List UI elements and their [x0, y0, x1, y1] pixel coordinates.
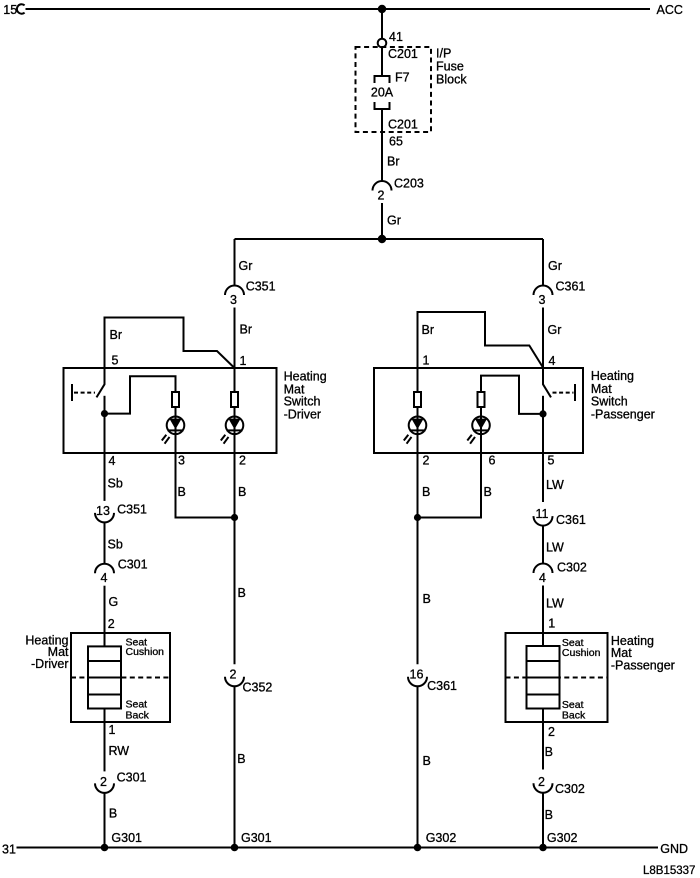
svg-text:20A: 20A	[371, 86, 394, 100]
svg-text:-Driver: -Driver	[284, 408, 322, 422]
wire bus to C361 right	[542, 239, 544, 286]
svg-text:2: 2	[548, 725, 555, 739]
mat divider dashed driver	[71, 677, 170, 679]
svg-text:B: B	[178, 485, 186, 499]
svg-text:2: 2	[423, 454, 430, 468]
connector C301 pin 2	[95, 783, 114, 793]
svg-text:-Driver: -Driver	[31, 657, 69, 671]
svg-text:Back: Back	[126, 709, 150, 721]
svg-text:Br: Br	[110, 328, 123, 342]
LED1 passenger	[409, 417, 427, 435]
Heating Mat Switch Driver box	[64, 368, 277, 453]
svg-text:13: 13	[96, 504, 110, 518]
svg-text:G302: G302	[547, 831, 578, 845]
junction pin6/pin2 passenger	[414, 514, 421, 521]
svg-text:B: B	[237, 752, 245, 766]
LED1 arrows driver	[162, 435, 170, 444]
svg-text:B: B	[423, 754, 431, 768]
switch lever passenger	[543, 368, 551, 397]
wire mat passenger to C302-2	[542, 709, 544, 770]
wire switch to LED2 branch passenger	[481, 376, 543, 414]
Heating Mat Driver box	[71, 633, 170, 722]
svg-text:B: B	[109, 807, 117, 821]
svg-text:1: 1	[240, 354, 247, 368]
resistor LED1 passenger	[414, 392, 421, 407]
svg-text:31: 31	[2, 843, 16, 857]
switch contact bar driver	[71, 384, 73, 401]
LED2 driver	[226, 417, 244, 435]
svg-text:4: 4	[539, 571, 546, 585]
svg-text:Gr: Gr	[387, 214, 401, 228]
svg-text:LW: LW	[546, 541, 564, 555]
wire bus to C351 left	[234, 239, 236, 286]
connector C351 pin 3	[225, 286, 244, 296]
LED1 arrows passenger	[404, 435, 412, 444]
svg-text:C361: C361	[427, 679, 457, 693]
svg-text:3: 3	[230, 293, 237, 307]
wire resistor to LED1 passenger	[417, 407, 419, 453]
wire C301-4 to heating mat driver	[104, 586, 106, 647]
svg-text:L8B15337: L8B15337	[643, 865, 695, 877]
wire fuse to C203, pin 65	[381, 109, 383, 181]
svg-text:B: B	[484, 485, 492, 499]
svg-text:B: B	[545, 745, 553, 759]
svg-text:3: 3	[178, 454, 185, 468]
pin 41 terminal	[378, 39, 387, 48]
LED1 driver	[167, 417, 185, 435]
svg-text:41: 41	[389, 30, 403, 44]
connector C301 pin 4	[95, 564, 114, 574]
svg-text:11: 11	[536, 507, 549, 521]
svg-text:LW: LW	[546, 478, 564, 492]
svg-text:Cushion: Cushion	[126, 646, 165, 658]
wire C361-16 to G302	[417, 686, 419, 847]
fuse F7 20A	[375, 76, 390, 109]
connector C361 pin 11	[534, 516, 553, 526]
wire C203 to bus	[381, 203, 383, 239]
connector C361 pin 16	[408, 677, 427, 687]
wire C302-4 to heating mat passenger	[542, 586, 544, 647]
svg-text:Heating: Heating	[591, 369, 634, 383]
svg-text:B: B	[238, 485, 246, 499]
svg-text:4: 4	[109, 454, 116, 468]
svg-text:Gr: Gr	[239, 259, 253, 273]
wire pin1 to resistor LED1 passenger	[417, 368, 419, 392]
junction pin3/pin2 driver	[231, 514, 238, 521]
svg-text:G301: G301	[241, 831, 272, 845]
svg-text:Gr: Gr	[548, 323, 562, 337]
wire pin2 passenger down	[417, 453, 419, 664]
switch output stub driver	[104, 396, 106, 414]
svg-text:-Passenger: -Passenger	[611, 658, 675, 672]
svg-text:4: 4	[101, 571, 108, 585]
svg-text:Br: Br	[240, 323, 253, 337]
wire pin4 below junction driver	[104, 414, 106, 453]
svg-text:C302: C302	[555, 782, 585, 796]
LED2 arrows driver	[221, 435, 229, 444]
connector C352 pin 2	[225, 677, 244, 687]
svg-text:5: 5	[112, 354, 119, 368]
svg-text:2: 2	[108, 617, 115, 631]
svg-text:Heating: Heating	[284, 370, 327, 384]
svg-text:1: 1	[548, 617, 555, 631]
svg-text:Sb: Sb	[108, 538, 123, 552]
svg-text:Cushion: Cushion	[562, 647, 601, 659]
svg-text:F7: F7	[395, 71, 410, 85]
svg-text:C361: C361	[556, 513, 586, 527]
junction bus	[378, 235, 386, 243]
svg-text:GND: GND	[660, 842, 688, 856]
svg-text:B: B	[238, 586, 246, 600]
junction top bus to feed	[378, 5, 386, 13]
svg-text:RW: RW	[109, 744, 130, 758]
svg-text:2: 2	[230, 668, 237, 682]
svg-text:C351: C351	[117, 503, 147, 517]
wire pin1 to resistor LED2 driver	[234, 368, 236, 392]
connector C302 pin 2	[534, 783, 553, 793]
LED2 passenger	[472, 417, 490, 435]
svg-text:2: 2	[538, 775, 545, 789]
svg-text:C352: C352	[243, 681, 273, 695]
svg-text:5: 5	[548, 454, 555, 468]
I/P fuse block dashed box	[356, 47, 432, 132]
wire ACC top bus	[26, 8, 651, 10]
svg-text:Back: Back	[562, 709, 586, 721]
svg-text:6: 6	[489, 454, 496, 468]
connector C302 pin 4	[534, 564, 553, 574]
wire resistor to LED2 passenger	[480, 407, 482, 453]
svg-text:2: 2	[239, 454, 246, 468]
wire pin6 passenger down	[418, 453, 482, 518]
Heating Mat Switch Passenger box	[374, 368, 583, 453]
wire C361 to switch pin 4	[542, 308, 544, 369]
wire pin5 below junction passenger	[542, 414, 544, 453]
svg-text:C351: C351	[246, 280, 276, 294]
svg-text:-Passenger: -Passenger	[591, 408, 655, 422]
wire C351 to switch pin 1	[234, 308, 236, 369]
ground bus 31	[17, 847, 659, 849]
switch output stub passenger	[542, 396, 544, 414]
svg-text:15: 15	[3, 3, 17, 17]
resistor LED2 driver	[231, 392, 238, 407]
wire pin5 passenger down	[542, 453, 544, 502]
svg-text:B: B	[423, 592, 431, 606]
wire C361-11 to C302-4	[542, 526, 544, 564]
wire pin2 driver down	[234, 453, 236, 664]
wire C352 to G301	[234, 686, 236, 847]
node 15 terminal circle	[17, 4, 25, 13]
svg-text:C361: C361	[556, 280, 586, 294]
svg-text:2: 2	[100, 775, 107, 789]
bus distribution line	[235, 238, 544, 240]
mat divider dashed passenger	[506, 677, 608, 679]
svg-text:Switch: Switch	[284, 395, 321, 409]
svg-text:Block: Block	[436, 73, 467, 87]
wire pin41 to fuse	[381, 48, 383, 77]
svg-text:C201: C201	[388, 47, 418, 61]
svg-text:C302: C302	[557, 561, 587, 575]
heater element driver	[88, 646, 121, 708]
wire C302-2 to G302	[542, 793, 544, 848]
LED2 arrows passenger	[467, 435, 475, 444]
svg-text:Sb: Sb	[108, 477, 123, 491]
switch lever driver	[97, 368, 105, 397]
svg-text:C301: C301	[117, 771, 147, 785]
wire resistor to LED1 driver	[175, 407, 177, 453]
svg-text:G: G	[109, 595, 119, 609]
wire switch to LED1 branch driver	[105, 376, 176, 413]
svg-text:65: 65	[389, 135, 403, 149]
wire feed to pin 41	[381, 9, 383, 39]
heater element passenger	[527, 646, 560, 709]
svg-text:B: B	[545, 808, 553, 822]
svg-text:ACC: ACC	[657, 3, 683, 17]
svg-text:Switch: Switch	[591, 395, 628, 409]
svg-text:3: 3	[539, 293, 546, 307]
wire mat driver to C301-2	[104, 709, 106, 772]
wire C351-13 to C301-4	[104, 522, 106, 563]
svg-text:I/P: I/P	[436, 47, 451, 61]
svg-text:Fuse: Fuse	[436, 60, 464, 74]
svg-text:G301: G301	[111, 831, 142, 845]
connector C203 pin 2	[373, 181, 392, 191]
svg-text:C203: C203	[394, 177, 424, 191]
svg-text:B: B	[422, 485, 430, 499]
svg-text:1: 1	[109, 723, 116, 737]
junction switch output driver	[101, 410, 108, 417]
wire branch pin1 over-route passenger	[418, 312, 544, 368]
Heating Mat Passenger box	[506, 633, 608, 722]
svg-text:Gr: Gr	[548, 259, 562, 273]
resistor LED1 driver	[172, 392, 179, 407]
switch contact bar passenger	[574, 384, 576, 401]
svg-text:C301: C301	[118, 557, 148, 571]
wire pin3 driver down	[176, 453, 235, 518]
svg-text:G302: G302	[426, 831, 457, 845]
connector C351 pin 13	[95, 513, 114, 523]
svg-text:Br: Br	[387, 155, 400, 169]
svg-text:LW: LW	[546, 597, 564, 611]
svg-text:1: 1	[423, 354, 430, 368]
switch linkage dashed driver	[74, 392, 95, 394]
resistor LED2 passenger	[478, 392, 485, 407]
wire C301-2 to G301	[104, 793, 106, 848]
svg-text:16: 16	[410, 668, 424, 682]
svg-text:2: 2	[378, 189, 385, 203]
connector C361 pin 3	[534, 286, 553, 296]
switch linkage dashed passenger	[553, 392, 574, 394]
wire branch pin5 over-route driver	[105, 318, 235, 369]
junction switch output passenger	[539, 410, 546, 417]
svg-text:4: 4	[549, 354, 556, 368]
wire resistor to LED2 driver	[234, 407, 236, 453]
svg-text:Br: Br	[422, 323, 435, 337]
wire pin4 driver down	[104, 453, 106, 501]
svg-text:C201: C201	[388, 118, 418, 132]
